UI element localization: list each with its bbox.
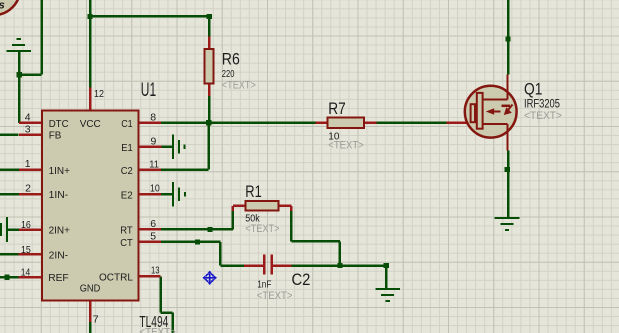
pin 6 stub xyxy=(139,228,162,231)
C2 leads xyxy=(244,264,292,267)
wire REF left xyxy=(0,276,19,279)
R1 leads xyxy=(233,206,291,211)
svg-text:E1: E1 xyxy=(121,142,133,154)
svg-text:4: 4 xyxy=(25,111,31,123)
ground (top-left, pointing up) xyxy=(6,38,31,52)
svg-text:<TEXT>: <TEXT> xyxy=(328,140,363,152)
pin 12 stub xyxy=(89,88,92,111)
wire 1IN+ left xyxy=(0,169,19,172)
svg-text:1IN+: 1IN+ xyxy=(49,165,70,177)
svg-text:<TEXT>: <TEXT> xyxy=(524,110,562,122)
svg-text:6: 6 xyxy=(150,218,156,230)
resistor R1 body xyxy=(245,201,278,211)
ground (below Q1 source) xyxy=(495,217,520,231)
resistor R6 body xyxy=(205,49,214,84)
node source wire xyxy=(505,167,510,172)
node VCC corner xyxy=(87,14,92,19)
svg-text:13: 13 xyxy=(151,264,160,276)
svg-text:9: 9 xyxy=(151,135,157,147)
svg-text:C2: C2 xyxy=(292,271,311,289)
wire ground stem to DTC xyxy=(18,51,21,123)
svg-text:ts: ts xyxy=(0,0,5,12)
IC U1 body xyxy=(42,111,139,301)
pin stubs and component leads (dark red) xyxy=(19,37,469,322)
transistor Q1 (IRF3205 MOSFET) xyxy=(465,75,517,151)
svg-text:3: 3 xyxy=(25,123,31,135)
wire 2IN+ to left ground xyxy=(8,228,19,231)
wire R7 to gate xyxy=(376,122,446,125)
node ground/DTC xyxy=(17,72,22,77)
node ground corner xyxy=(384,263,389,268)
svg-text:16: 16 xyxy=(21,219,31,231)
svg-text:1IN-: 1IN- xyxy=(49,189,69,201)
ground (below C2 net) xyxy=(375,288,400,302)
pin 15 stub xyxy=(19,253,42,256)
R7 leads xyxy=(315,122,376,125)
svg-text:2IN+: 2IN+ xyxy=(49,225,70,237)
svg-text:VCC: VCC xyxy=(80,118,101,130)
svg-text:R1: R1 xyxy=(245,183,261,201)
capacitor C2 plates xyxy=(263,254,273,274)
pin 5 stub xyxy=(139,241,162,244)
svg-text:12: 12 xyxy=(94,88,104,100)
wire pin7 down xyxy=(89,322,92,333)
body diode mark xyxy=(502,105,511,108)
svg-text:Q1: Q1 xyxy=(524,80,542,98)
node REF wire xyxy=(4,275,9,280)
gate plate xyxy=(471,104,475,122)
pin 2 stub xyxy=(19,193,42,196)
wire E2 to ground xyxy=(161,193,173,196)
wire CT row to C2 xyxy=(161,242,244,266)
svg-text:CT: CT xyxy=(120,237,133,249)
pin 13 stub xyxy=(139,275,161,278)
wire to ground top-left xyxy=(19,73,41,76)
svg-text:14: 14 xyxy=(21,267,31,279)
ground (E1, pointing right) xyxy=(172,135,186,160)
svg-text:<TEXT>: <TEXT> xyxy=(139,326,176,333)
node C2/R1 junction xyxy=(337,263,342,268)
svg-text:R7: R7 xyxy=(328,100,346,118)
svg-text:<TEXT>: <TEXT> xyxy=(222,79,256,91)
wire C1 row xyxy=(161,122,315,125)
pin 7 stub xyxy=(89,301,92,323)
wire FB left xyxy=(0,134,19,137)
R6 leads xyxy=(208,37,211,96)
svg-text:5: 5 xyxy=(150,230,156,242)
wire 2IN- left xyxy=(0,253,19,256)
origin marker (blue crosshair) xyxy=(203,271,217,285)
wire pin11 to C1 node xyxy=(161,123,209,170)
svg-text:15: 15 xyxy=(21,244,31,256)
pin 4 stub xyxy=(19,122,42,125)
Q1 gate lead xyxy=(447,122,470,125)
svg-text:11: 11 xyxy=(149,158,159,170)
svg-text:OCTRL: OCTRL xyxy=(99,272,133,284)
svg-text:C1: C1 xyxy=(121,118,133,130)
svg-text:8: 8 xyxy=(150,111,156,123)
svg-text:IRF3205: IRF3205 xyxy=(524,98,560,110)
wire E1 to ground xyxy=(161,146,172,149)
node RT row xyxy=(207,227,212,232)
svg-text:1nF: 1nF xyxy=(257,279,271,290)
resistor R7 body xyxy=(328,118,365,128)
wire R6 top xyxy=(208,16,211,36)
pin 3 stub xyxy=(19,134,42,137)
svg-text:<TEXT>: <TEXT> xyxy=(245,223,279,235)
pin 10 stub xyxy=(139,193,162,196)
svg-text:DTC: DTC xyxy=(49,118,69,130)
ground (E2, pointing right) xyxy=(172,182,186,207)
svg-text:1: 1 xyxy=(25,158,31,170)
wire pin13 down xyxy=(161,276,173,333)
pin 16 stub xyxy=(19,228,42,231)
svg-text:R6: R6 xyxy=(222,51,240,69)
node R6 top corner xyxy=(207,14,212,19)
substrate arrow xyxy=(486,108,494,114)
wire RT row xyxy=(161,211,233,230)
wire 1IN- left xyxy=(0,193,19,196)
svg-text:C2: C2 xyxy=(121,165,133,177)
wire R6 bottom to C1 row xyxy=(208,96,211,123)
pin 1 stub xyxy=(19,169,42,172)
wire C2 right to ground xyxy=(292,266,387,289)
svg-text:FB: FB xyxy=(49,130,62,142)
wire R1 right to C2 right net xyxy=(291,211,340,266)
pin 9 stub xyxy=(139,146,162,149)
pin 8 stub xyxy=(139,122,162,125)
battery B1 (partial, top-left corner) xyxy=(0,0,20,15)
ground (left edge at 2IN+, pointing left) xyxy=(0,217,8,242)
pin 11 stub xyxy=(139,169,162,172)
svg-text:7: 7 xyxy=(93,314,99,326)
wire x=41.6 top xyxy=(40,0,43,75)
wire source to ground xyxy=(507,151,510,218)
channel bar xyxy=(477,93,483,129)
svg-text:<TEXT>: <TEXT> xyxy=(257,290,293,302)
svg-text:2IN-: 2IN- xyxy=(49,249,69,261)
node drain wire xyxy=(505,36,510,41)
svg-text:E2: E2 xyxy=(121,189,133,201)
node CT row xyxy=(195,239,200,244)
wire x=90 VCC from top xyxy=(89,0,92,88)
svg-text:2: 2 xyxy=(25,183,31,195)
svg-text:REF: REF xyxy=(48,272,68,284)
node C1/R6/R7/pin11 xyxy=(206,120,211,125)
pin 14 stub xyxy=(19,276,42,279)
wire y=16.4 to R6 xyxy=(90,15,209,18)
svg-text:RT: RT xyxy=(120,225,133,237)
drain/source internal path xyxy=(483,75,508,151)
wire drain from top xyxy=(507,0,510,75)
svg-text:10: 10 xyxy=(150,183,160,195)
svg-text:U1: U1 xyxy=(141,80,156,101)
svg-text:GND: GND xyxy=(80,283,101,295)
